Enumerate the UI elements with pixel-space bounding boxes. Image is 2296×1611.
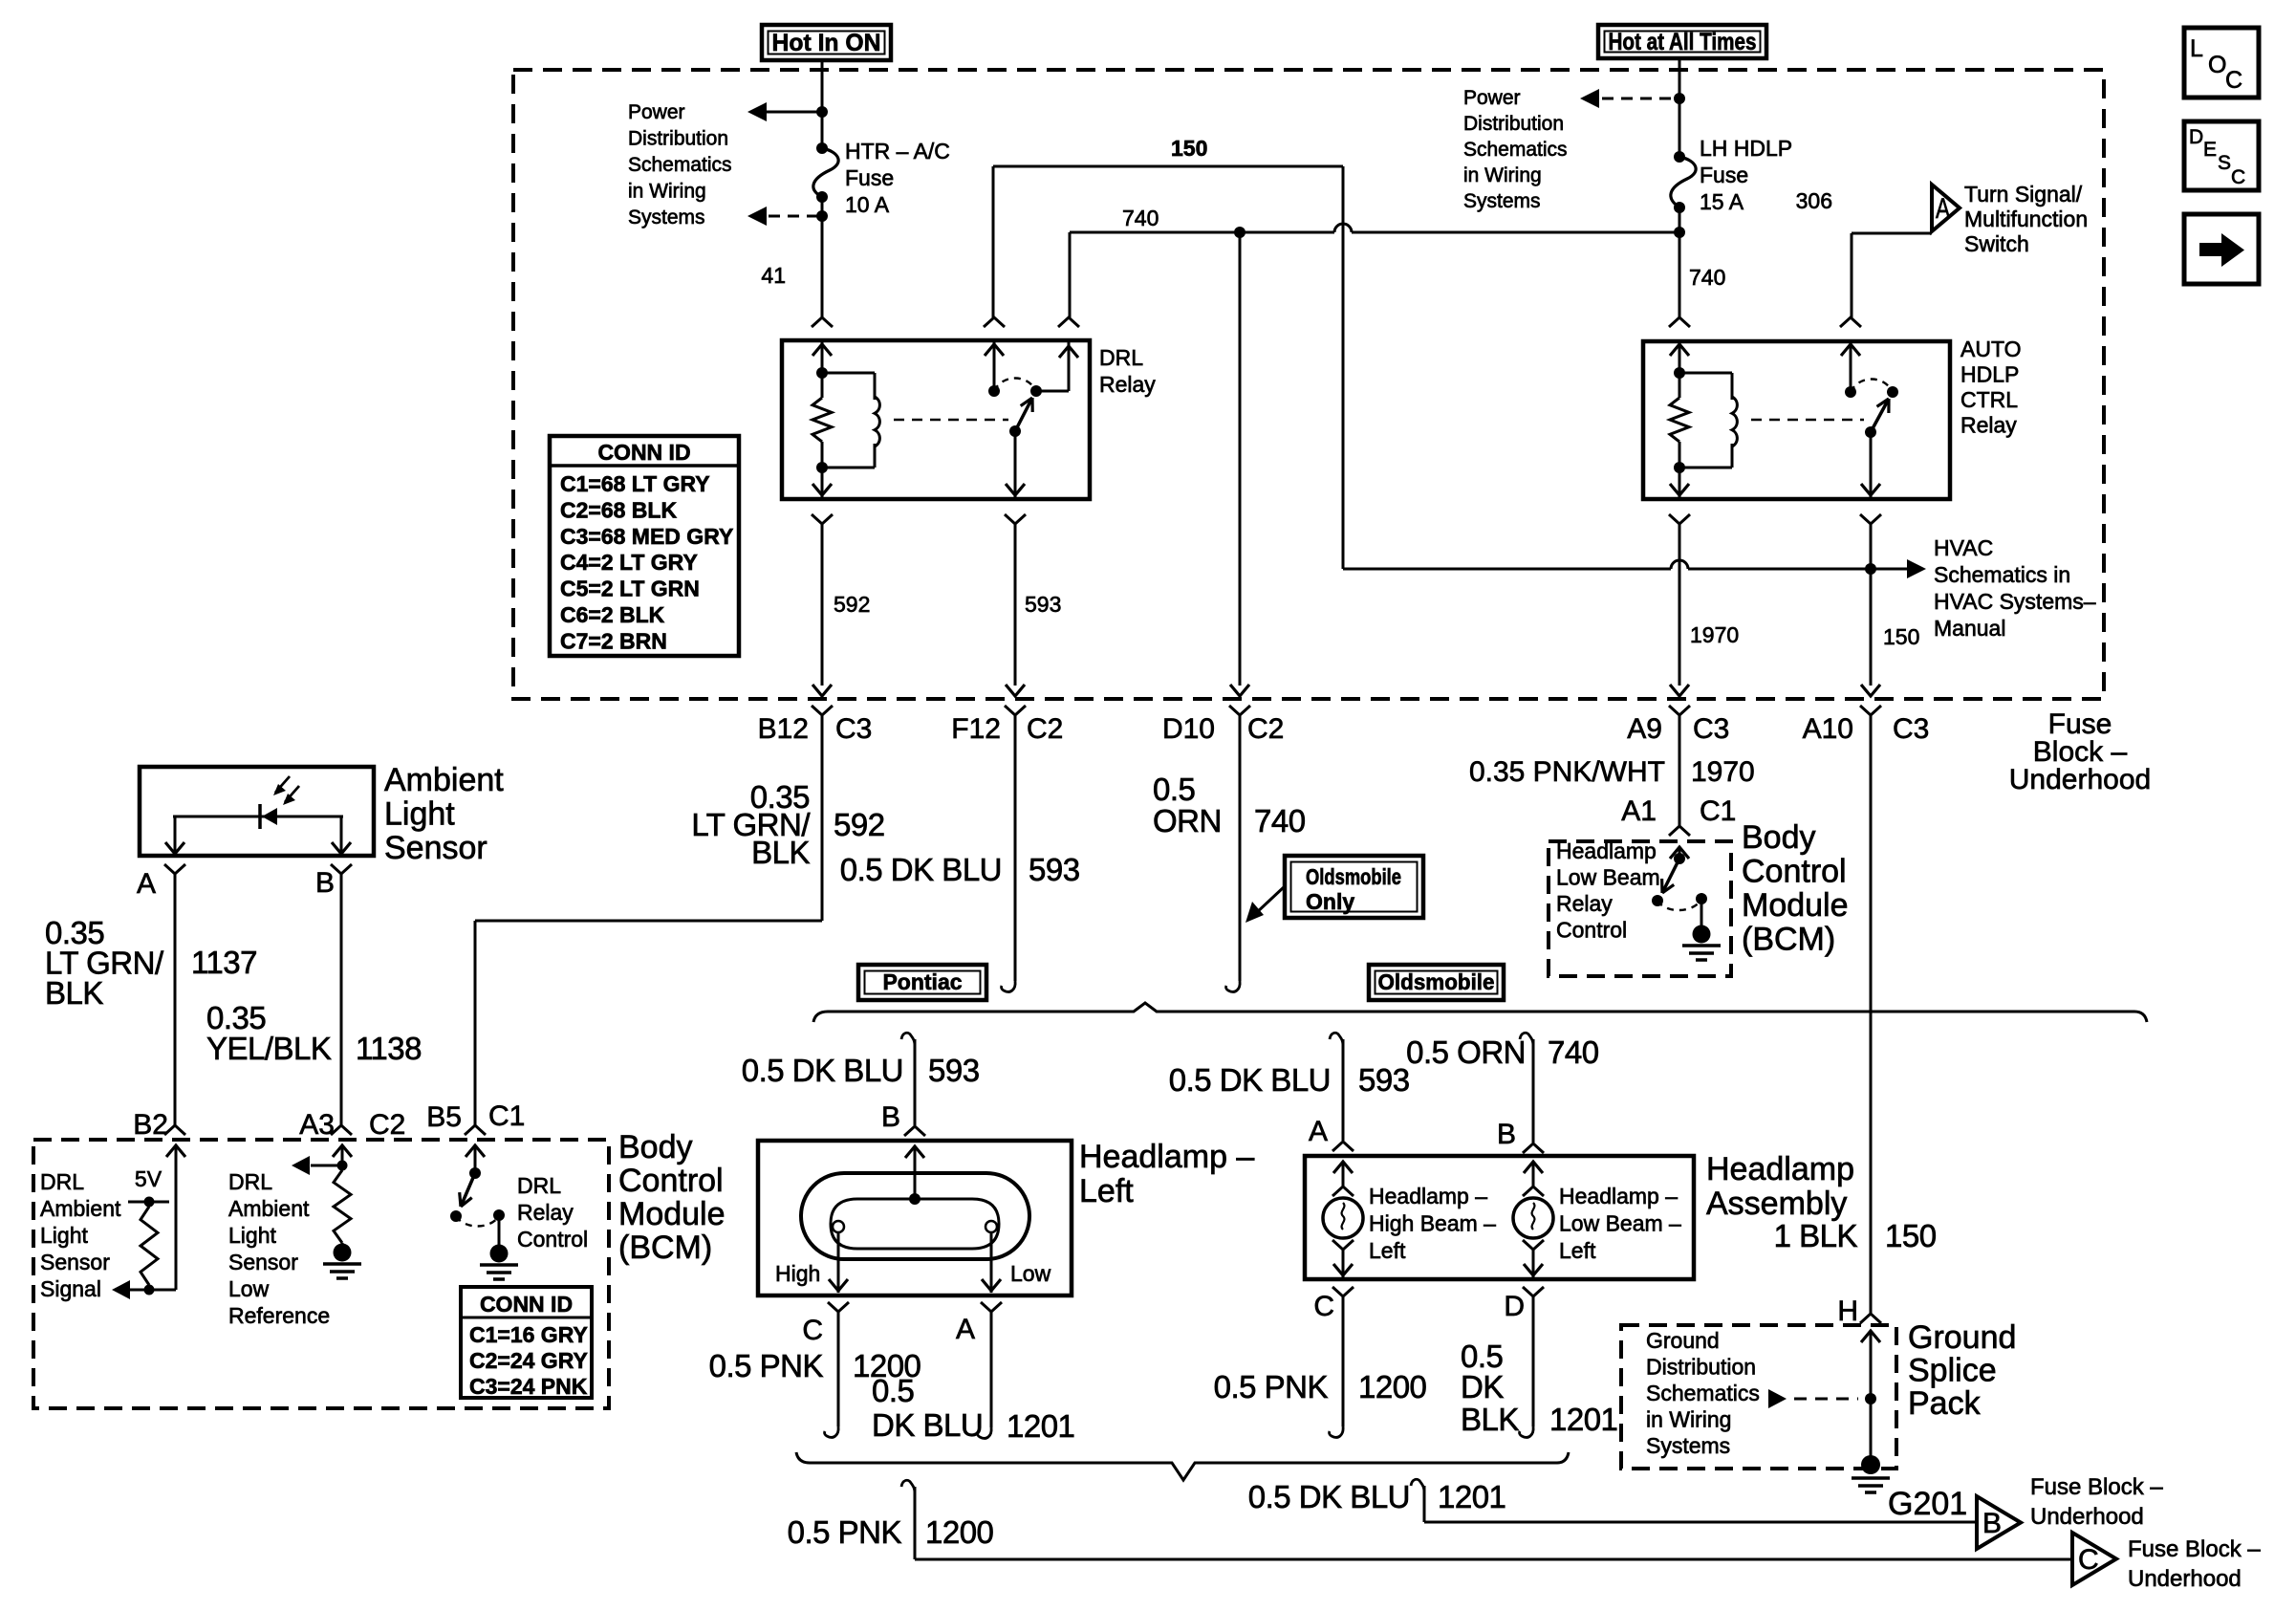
svg-text:Light: Light — [384, 796, 455, 833]
wire 740 ORN D10 stub — [1226, 715, 1241, 991]
pin arrow AUTO coil top — [1670, 341, 1689, 373]
wire 1201 DK BLU Pontiac low — [978, 1312, 992, 1438]
svg-text:HDLP: HDLP — [1960, 362, 2019, 387]
connector flare A10 below — [1860, 706, 1881, 715]
node switch common AUTO — [1865, 426, 1876, 438]
connector A3-C2 labels — [299, 1109, 405, 1141]
fuse LH HDLP F2 — [1671, 151, 1696, 213]
lamp Headlamp Assembly Olds box — [1305, 1156, 1694, 1279]
label 0.35 YEL/BLK — [206, 1000, 332, 1066]
svg-text:HVAC: HVAC — [1934, 535, 1993, 560]
connector flare low beam bulb top — [1523, 1186, 1544, 1196]
svg-text:B2: B2 — [133, 1109, 168, 1141]
junction dot 740 tee at fuse output — [1674, 227, 1685, 238]
svg-text:Light: Light — [40, 1223, 88, 1248]
svg-text:C: C — [2231, 166, 2245, 188]
svg-text:DRL: DRL — [1099, 345, 1143, 370]
connector flare B12 below — [812, 706, 833, 715]
arrow D10 wire at boundary — [1230, 685, 1249, 696]
svg-text:DK BLU: DK BLU — [872, 1407, 983, 1443]
svg-text:593: 593 — [1358, 1062, 1410, 1098]
svg-text:in Wiring: in Wiring — [628, 181, 706, 203]
text power distribution schematics left — [628, 101, 732, 229]
svg-text:Module: Module — [618, 1196, 726, 1232]
svg-text:740: 740 — [1548, 1034, 1599, 1070]
svg-text:150: 150 — [1171, 136, 1207, 161]
label AUTO HDLP CTRL Relay — [1960, 337, 2021, 438]
wire 592 DRL coil to B12 — [812, 524, 832, 696]
power tag box Hot In ON — [762, 25, 891, 60]
text HVAC schematics manual — [1934, 535, 2096, 641]
svg-text:G201: G201 — [1888, 1486, 1967, 1522]
sealed beam bulb outline — [801, 1173, 1029, 1259]
svg-text:DK: DK — [1461, 1369, 1504, 1404]
pin arrow A into assembly — [1333, 1162, 1353, 1186]
node NC contact AUTO — [1845, 386, 1856, 398]
svg-text:Systems: Systems — [1463, 190, 1541, 212]
svg-text:Body: Body — [1742, 819, 1816, 856]
svg-text:D10: D10 — [1162, 713, 1215, 745]
table CONN ID fuse block — [550, 436, 739, 656]
ground BCM internal — [1682, 944, 1721, 947]
svg-text:B: B — [881, 1101, 900, 1133]
splice dot DRL relay control ground — [490, 1245, 509, 1263]
svg-text:B: B — [315, 867, 335, 899]
label Fuse Block - Underhood — [2009, 708, 2151, 795]
junction dot power distribution solid — [816, 106, 828, 118]
connector flare A9 below — [1669, 706, 1690, 715]
svg-text:C: C — [1313, 1291, 1334, 1322]
svg-text:Headlamp: Headlamp — [1556, 838, 1657, 863]
BCM headlamp low beam relay control switch — [1652, 853, 1685, 906]
pin arrow switch NC input — [985, 341, 1004, 391]
svg-text:DRL: DRL — [517, 1173, 561, 1198]
svg-text:0.5 PNK: 0.5 PNK — [709, 1348, 824, 1383]
svg-text:150: 150 — [1885, 1218, 1937, 1253]
svg-text:Module: Module — [1742, 887, 1849, 924]
resistor R2 AUTO — [1670, 373, 1689, 473]
bulb high beam left — [1323, 1198, 1363, 1238]
svg-text:0.5: 0.5 — [1153, 772, 1195, 807]
dashed travel arc DRL relay control — [456, 1216, 499, 1227]
variant tag box Pontiac — [858, 965, 986, 1000]
svg-text:Only: Only — [1306, 889, 1354, 914]
svg-text:Underhood: Underhood — [2030, 1504, 2144, 1530]
svg-text:Low: Low — [228, 1276, 270, 1301]
wire net 150 horizontal — [993, 166, 1343, 569]
connector flare high beam bulb bottom — [1332, 1240, 1354, 1250]
ground DRL relay control — [480, 1263, 518, 1267]
splice dot G201 — [1861, 1455, 1880, 1474]
svg-text:S: S — [2218, 152, 2231, 174]
svg-text:1970: 1970 — [1690, 622, 1739, 647]
svg-text:Relay: Relay — [1099, 372, 1156, 397]
svg-text:Headlamp –: Headlamp – — [1559, 1184, 1678, 1208]
svg-text:C3: C3 — [1893, 713, 1929, 745]
svg-text:Sensor: Sensor — [384, 830, 487, 866]
svg-text:A: A — [137, 868, 156, 900]
svg-text:Oldsmobile: Oldsmobile — [1378, 969, 1495, 994]
label 0.35 LT GRN/BLK left — [45, 915, 164, 1011]
svg-text:Oldsmobile: Oldsmobile — [1306, 864, 1401, 889]
connector flare low beam bulb bottom — [1523, 1240, 1544, 1250]
junction dot HVAC tap — [1865, 563, 1876, 575]
resistor R3 sensor signal pull-up — [141, 1207, 158, 1290]
svg-text:Splice: Splice — [1908, 1353, 1997, 1389]
wire 1970 AUTO coil to A9 — [1670, 524, 1689, 696]
svg-text:41: 41 — [761, 263, 786, 288]
switch blade DRL with arrow — [1015, 398, 1032, 431]
svg-text:Pack: Pack — [1908, 1385, 1982, 1422]
wire 740 drop to D10 — [1239, 232, 1242, 686]
svg-text:Hot In ON: Hot In ON — [772, 30, 881, 56]
svg-text:L: L — [2190, 35, 2203, 62]
text ground distribution schematics — [1646, 1328, 1760, 1458]
connector flare headlamp C — [828, 1302, 849, 1312]
pin arrow coil top — [812, 341, 832, 373]
svg-text:(BCM): (BCM) — [1742, 922, 1835, 958]
svg-text:Left: Left — [1559, 1238, 1596, 1263]
wire NO contact to pin 3 — [1036, 341, 1078, 391]
svg-text:Power: Power — [628, 101, 685, 123]
off-page connector C fuse block — [2072, 1533, 2116, 1585]
svg-text:740: 740 — [1254, 803, 1306, 838]
dashed arrow ground distribution — [1768, 1389, 1858, 1408]
svg-text:H: H — [1837, 1295, 1858, 1327]
wire net 1201 to fuse block B — [1411, 1479, 1977, 1522]
svg-text:C7=2 BRN: C7=2 BRN — [560, 628, 667, 653]
sensor pin B drop — [332, 816, 351, 856]
wire net 1200 to fuse block C — [901, 1480, 2072, 1559]
legend box arrow — [2184, 214, 2259, 284]
svg-text:593: 593 — [1029, 852, 1080, 887]
connector flare headlamp A — [981, 1302, 1002, 1312]
svg-text:Left: Left — [1369, 1238, 1406, 1263]
node switch common DRL — [1009, 425, 1021, 437]
label Body Control Module BCM right — [1742, 819, 1849, 958]
svg-text:C6=2 BLK: C6=2 BLK — [560, 602, 665, 627]
connector flare AUTO coil bottom — [1669, 514, 1690, 524]
connector flare F12 below — [1005, 706, 1026, 715]
svg-text:A3: A3 — [299, 1109, 335, 1141]
svg-text:B: B — [1497, 1119, 1516, 1150]
svg-text:593: 593 — [1025, 592, 1061, 617]
pin arrow coil bottom — [812, 468, 832, 499]
svg-text:C2=68 BLK: C2=68 BLK — [560, 497, 677, 522]
connector flare DRL relay output bottom — [1005, 514, 1026, 524]
svg-text:A: A — [956, 1314, 975, 1345]
wire hot-in-on feed x860 — [821, 60, 824, 317]
svg-text:Sensor: Sensor — [228, 1250, 298, 1274]
svg-text:BLK: BLK — [45, 975, 103, 1011]
svg-text:YEL/BLK: YEL/BLK — [206, 1031, 332, 1066]
wire 1201 DK BLK Olds — [1520, 1296, 1534, 1437]
bulb filament frame — [831, 1193, 999, 1249]
text power distribution schematics right — [1463, 87, 1568, 212]
wire 593 DRL output to F12 — [1006, 524, 1025, 696]
svg-text:Body: Body — [618, 1129, 693, 1165]
svg-text:C: C — [802, 1315, 823, 1346]
svg-text:Ambient: Ambient — [384, 762, 504, 798]
text DRL relay control — [517, 1173, 588, 1252]
splice dot BCM ground — [1693, 925, 1711, 944]
svg-text:Control: Control — [1742, 854, 1847, 890]
svg-text:in Wiring: in Wiring — [1463, 164, 1542, 186]
svg-text:B12: B12 — [758, 713, 809, 745]
node BCM switch NO to ground — [1696, 893, 1707, 925]
connector flare AUTO output bottom — [1860, 514, 1881, 524]
svg-text:592: 592 — [834, 592, 870, 617]
svg-text:Ground: Ground — [1646, 1328, 1720, 1353]
svg-text:Distribution: Distribution — [628, 128, 728, 150]
svg-text:F12: F12 — [951, 713, 1001, 745]
text headlamp low beam left — [1559, 1184, 1681, 1263]
label DRL Relay — [1099, 345, 1156, 397]
module BCM left dashed box — [33, 1140, 609, 1408]
label HTR - A/C Fuse 10 A — [845, 139, 950, 217]
fuse HTR-A/C F1 — [813, 142, 838, 203]
dashed travel arc AUTO switch — [1851, 380, 1893, 393]
arrow Oldsmobile Only to 740 wire — [1245, 886, 1285, 923]
wire 150 HVAC tap with hop over 1970 — [1343, 560, 1871, 569]
svg-text:0.5 DK BLU: 0.5 DK BLU — [1248, 1479, 1410, 1514]
pin arrow AUTO switch NC input — [1841, 341, 1860, 392]
wire 1200 PNK Olds — [1330, 1296, 1344, 1437]
svg-text:BLK: BLK — [1461, 1402, 1519, 1437]
svg-text:A1: A1 — [1621, 795, 1657, 827]
svg-text:0.5 PNK: 0.5 PNK — [788, 1514, 902, 1550]
svg-text:Ambient: Ambient — [228, 1196, 310, 1221]
svg-text:HVAC Systems–: HVAC Systems– — [1934, 589, 2096, 614]
svg-text:Distribution: Distribution — [1646, 1355, 1756, 1380]
svg-text:Control: Control — [1556, 918, 1627, 943]
svg-text:Relay: Relay — [1960, 413, 2017, 438]
wire hot-at-all-times feed x1757 — [1679, 58, 1681, 317]
svg-text:Fuse Block –: Fuse Block – — [2030, 1474, 2163, 1500]
pin arrow AUTO coil bottom — [1670, 468, 1689, 499]
high filament drop — [829, 1232, 848, 1293]
svg-text:C3=68 MED GRY: C3=68 MED GRY — [560, 524, 733, 549]
svg-text:740: 740 — [1689, 265, 1725, 290]
svg-text:Relay: Relay — [1556, 891, 1613, 916]
variant tag box Oldsmobile — [1369, 965, 1504, 1000]
lamp Headlamp-Left Pontiac box — [758, 1141, 1072, 1295]
svg-text:Underhood: Underhood — [2128, 1566, 2242, 1592]
svg-text:DRL: DRL — [228, 1169, 272, 1194]
pin arrow B into headlamp — [905, 1146, 924, 1199]
svg-text:C2: C2 — [1247, 713, 1284, 745]
svg-text:Ambient: Ambient — [40, 1196, 121, 1221]
low beam bulb drop — [1524, 1250, 1543, 1277]
resistor R4 low reference — [334, 1170, 351, 1243]
relay K2 AUTO HDLP CTRL Relay box — [1643, 341, 1950, 499]
arrow sensor signal internal — [112, 1280, 176, 1299]
DRL relay coil circuit — [816, 367, 875, 400]
pin arrow switch output — [1006, 431, 1025, 499]
svg-text:0.5 DK BLU: 0.5 DK BLU — [742, 1053, 903, 1088]
label Ambient Light Sensor — [384, 762, 504, 866]
svg-text:Signal: Signal — [40, 1276, 101, 1301]
low filament drop — [982, 1232, 1001, 1293]
wire 1138 sensor B to BCM A3 — [331, 874, 352, 1135]
svg-text:0.5 PNK: 0.5 PNK — [1214, 1369, 1329, 1404]
text headlamp high beam left — [1369, 1184, 1496, 1263]
dashed travel arc DRL switch — [994, 379, 1036, 392]
svg-text:Headlamp: Headlamp — [1706, 1151, 1854, 1187]
svg-text:Systems: Systems — [1646, 1433, 1730, 1458]
svg-text:1200: 1200 — [925, 1514, 994, 1550]
connector flare assembly C — [1332, 1287, 1354, 1296]
svg-text:1137: 1137 — [191, 945, 257, 980]
svg-text:Control: Control — [517, 1227, 588, 1252]
text fuse block underhood C — [2128, 1536, 2261, 1592]
svg-text:B: B — [1982, 1508, 2002, 1539]
sensor box Ambient Light Sensor — [140, 767, 374, 856]
node A3 low reference — [337, 1161, 348, 1171]
svg-text:Ground: Ground — [1908, 1319, 2016, 1356]
off-page connector B fuse block — [1977, 1496, 2021, 1549]
svg-text:(BCM): (BCM) — [618, 1230, 712, 1266]
svg-text:BLK: BLK — [751, 835, 810, 870]
text headlamp low beam relay control — [1556, 838, 1660, 943]
svg-text:D: D — [2189, 126, 2203, 148]
svg-text:C: C — [2078, 1544, 2099, 1576]
junction dot dashed branch — [816, 210, 828, 222]
relay K1 DRL Relay box — [782, 340, 1090, 499]
ground G201 symbol — [1852, 1476, 1890, 1480]
svg-text:Hot at All Times: Hot at All Times — [1609, 29, 1757, 55]
svg-text:Assembly: Assembly — [1706, 1186, 1847, 1222]
svg-text:C4=2 LT GRY: C4=2 LT GRY — [560, 550, 698, 575]
connector flare DRL relay pin3 top — [1058, 317, 1079, 327]
svg-text:C2: C2 — [1027, 713, 1063, 745]
ground splice pack dashed box — [1621, 1325, 1896, 1469]
connector A9-C3 labels — [1627, 713, 1729, 745]
off-page connector A turn signal — [1932, 185, 1960, 231]
ground low reference — [323, 1262, 361, 1266]
pin arrow H into splice pack — [1861, 1331, 1880, 1457]
svg-text:DRL: DRL — [40, 1169, 84, 1194]
power tag box Hot at All Times — [1598, 25, 1766, 58]
label 0.5 DK BLK stacked — [1461, 1339, 1519, 1437]
junction dot dashed branch right — [1674, 93, 1685, 104]
node NO contact DRL — [1030, 385, 1042, 397]
svg-text:Manual: Manual — [1934, 616, 2005, 641]
svg-text:Pontiac: Pontiac — [882, 969, 962, 994]
svg-text:Power: Power — [1463, 87, 1521, 109]
fuse block underhood dashed boundary — [513, 70, 2104, 699]
wire 593 DK BLU F12 stub — [1002, 715, 1016, 991]
svg-text:Schematics in: Schematics in — [1934, 562, 2070, 587]
photodiode D1 with incoming light arrows — [173, 776, 343, 829]
svg-text:0.5 ORN: 0.5 ORN — [1406, 1034, 1526, 1070]
svg-text:306: 306 — [1796, 188, 1832, 213]
junction dot 740 to D10 — [1234, 227, 1245, 238]
text DRL ambient light sensor low reference — [228, 1169, 330, 1328]
junction dot ground distribution tap — [1865, 1393, 1876, 1404]
sensor pin A drop — [165, 816, 184, 856]
text fuse block underhood B — [2030, 1474, 2163, 1530]
svg-text:592: 592 — [834, 807, 885, 842]
svg-text:C3: C3 — [1693, 713, 1729, 745]
svg-text:C3=24 PNK: C3=24 PNK — [469, 1374, 588, 1399]
connector F12-C2 labels — [951, 713, 1063, 745]
svg-text:1200: 1200 — [1358, 1369, 1427, 1404]
text turn signal multifunction switch — [1964, 182, 2088, 256]
svg-text:AUTO: AUTO — [1960, 337, 2021, 361]
svg-text:C2=24 GRY: C2=24 GRY — [469, 1348, 588, 1373]
svg-text:C1: C1 — [488, 1100, 525, 1132]
svg-text:High: High — [775, 1261, 820, 1286]
connector flare DRL relay coil bottom — [812, 514, 833, 524]
wire 1970 PNK/WHT A9 to BCM A1 — [1669, 715, 1690, 836]
connector flare assembly D — [1523, 1287, 1544, 1296]
svg-text:Schematics: Schematics — [1646, 1381, 1760, 1405]
svg-text:O: O — [2208, 52, 2226, 78]
svg-text:in Wiring: in Wiring — [1646, 1407, 1731, 1432]
connector A1-C1 labels — [1621, 795, 1736, 827]
svg-text:150: 150 — [1883, 624, 1919, 649]
svg-text:A: A — [1309, 1116, 1328, 1147]
wire 1137 sensor A to BCM B2 — [164, 874, 185, 1135]
variant brace lower — [796, 1452, 1569, 1480]
node sensor signal junction — [144, 1285, 155, 1295]
svg-text:5V: 5V — [135, 1166, 162, 1191]
svg-text:Schematics: Schematics — [628, 154, 732, 176]
wire 150 AUTO output to A10 — [1861, 524, 1880, 696]
svg-text:CONN ID: CONN ID — [480, 1292, 573, 1317]
label Ground Splice Pack — [1908, 1319, 2016, 1422]
label LH HDLP Fuse 15 A — [1700, 136, 1792, 214]
pin arrow B into assembly — [1524, 1162, 1543, 1186]
variant tag box Oldsmobile Only — [1285, 856, 1423, 918]
connector flare sensor B — [331, 864, 352, 874]
svg-text:15 A: 15 A — [1700, 189, 1744, 214]
svg-text:Fuse: Fuse — [845, 165, 894, 190]
wire 593 Olds high beam A — [1330, 1033, 1354, 1151]
connector D10-C2 labels — [1162, 713, 1284, 745]
svg-text:D: D — [1504, 1291, 1525, 1322]
svg-text:A: A — [1936, 193, 1950, 225]
svg-text:Underhood: Underhood — [2009, 764, 2151, 795]
wire net 740 horizontal with hop over 150 — [1070, 224, 1679, 317]
connector flare DRL relay pin NC top — [984, 317, 1005, 327]
module BCM right dashed box — [1549, 841, 1731, 976]
svg-text:CTRL: CTRL — [1960, 387, 2018, 412]
connector B5-C1 labels — [426, 1100, 525, 1133]
svg-text:C1=16 GRY: C1=16 GRY — [469, 1322, 588, 1347]
svg-text:593: 593 — [928, 1053, 980, 1088]
dashed coil-switch linkage DRL — [894, 419, 1008, 422]
svg-text:C1: C1 — [1700, 795, 1736, 827]
svg-text:740: 740 — [1122, 206, 1159, 230]
svg-text:Low Beam: Low Beam — [1556, 865, 1660, 890]
svg-text:Turn Signal/: Turn Signal/ — [1964, 182, 2083, 207]
svg-text:C3: C3 — [835, 713, 872, 745]
svg-text:Control: Control — [618, 1163, 724, 1199]
svg-text:1 BLK: 1 BLK — [1774, 1218, 1858, 1253]
connector flare DRL relay pin coil top — [812, 317, 833, 327]
connector flare AUTO relay pin NC top — [1840, 317, 1861, 327]
svg-text:A9: A9 — [1627, 713, 1662, 745]
svg-text:10 A: 10 A — [845, 192, 890, 217]
svg-text:Systems: Systems — [628, 207, 705, 229]
svg-text:0.5 DK BLU: 0.5 DK BLU — [1169, 1062, 1331, 1098]
label 0.35 LT GRN/BLK — [691, 779, 811, 870]
arrow to power distribution schematics (solid) — [747, 102, 822, 121]
svg-text:HTR – A/C: HTR – A/C — [845, 139, 950, 163]
wire 740 Olds low beam B — [1520, 1033, 1544, 1153]
